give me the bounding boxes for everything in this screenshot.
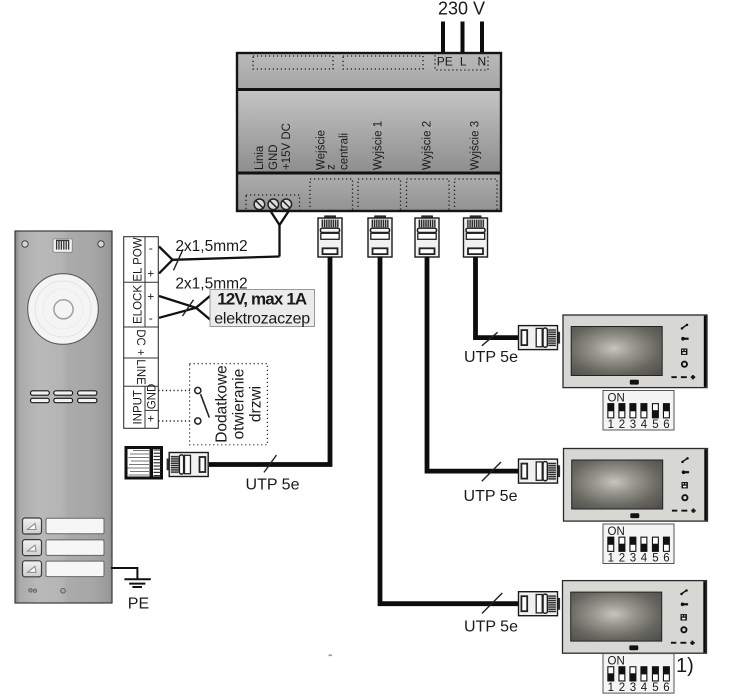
svg-text:Wejście: Wejście: [316, 130, 328, 170]
svg-text:ELOCK: ELOCK: [132, 285, 144, 324]
svg-text:otwieranie: otwieranie: [231, 369, 248, 440]
svg-text:LINE: LINE: [134, 359, 146, 385]
svg-text:DC +: DC +: [134, 329, 146, 356]
svg-text:Wyjście 1: Wyjście 1: [373, 121, 385, 170]
svg-text:PE: PE: [128, 596, 149, 613]
svg-text:Dodatkowe: Dodatkowe: [214, 365, 231, 443]
svg-text:12V, max 1A: 12V, max 1A: [217, 290, 307, 309]
svg-text:GND: GND: [147, 384, 159, 410]
svg-text:+: +: [147, 267, 154, 281]
svg-text:Linia: Linia: [254, 145, 266, 170]
svg-text:230 V: 230 V: [438, 0, 485, 19]
svg-text:Wyjście 3: Wyjście 3: [470, 121, 482, 170]
svg-text:GND: GND: [268, 144, 280, 170]
svg-text:1): 1): [676, 655, 694, 677]
svg-text:drzwi: drzwi: [248, 386, 265, 422]
svg-text:EL POW: EL POW: [132, 237, 144, 281]
svg-text:UTP 5e: UTP 5e: [464, 619, 518, 636]
svg-text:+: +: [147, 290, 154, 304]
svg-text:UTP 5e: UTP 5e: [246, 477, 300, 494]
svg-text:centrali: centrali: [339, 133, 351, 170]
svg-text:PE: PE: [437, 55, 453, 69]
svg-text:-: -: [149, 311, 153, 325]
svg-text:N: N: [477, 55, 486, 69]
svg-text:+: +: [147, 412, 154, 426]
svg-text:z: z: [326, 164, 338, 170]
svg-text:INPUT: INPUT: [132, 390, 144, 425]
svg-text:UTP 5e: UTP 5e: [464, 488, 518, 505]
svg-text:-: -: [149, 241, 153, 255]
svg-text:L: L: [460, 55, 467, 69]
svg-text:elektrozaczep: elektrozaczep: [214, 311, 310, 328]
svg-text:Wyjście 2: Wyjście 2: [422, 121, 434, 170]
svg-text:UTP 5e: UTP 5e: [464, 349, 518, 366]
svg-text:+15V DC: +15V DC: [281, 123, 293, 170]
svg-text:2x1,5mm2: 2x1,5mm2: [175, 238, 247, 255]
